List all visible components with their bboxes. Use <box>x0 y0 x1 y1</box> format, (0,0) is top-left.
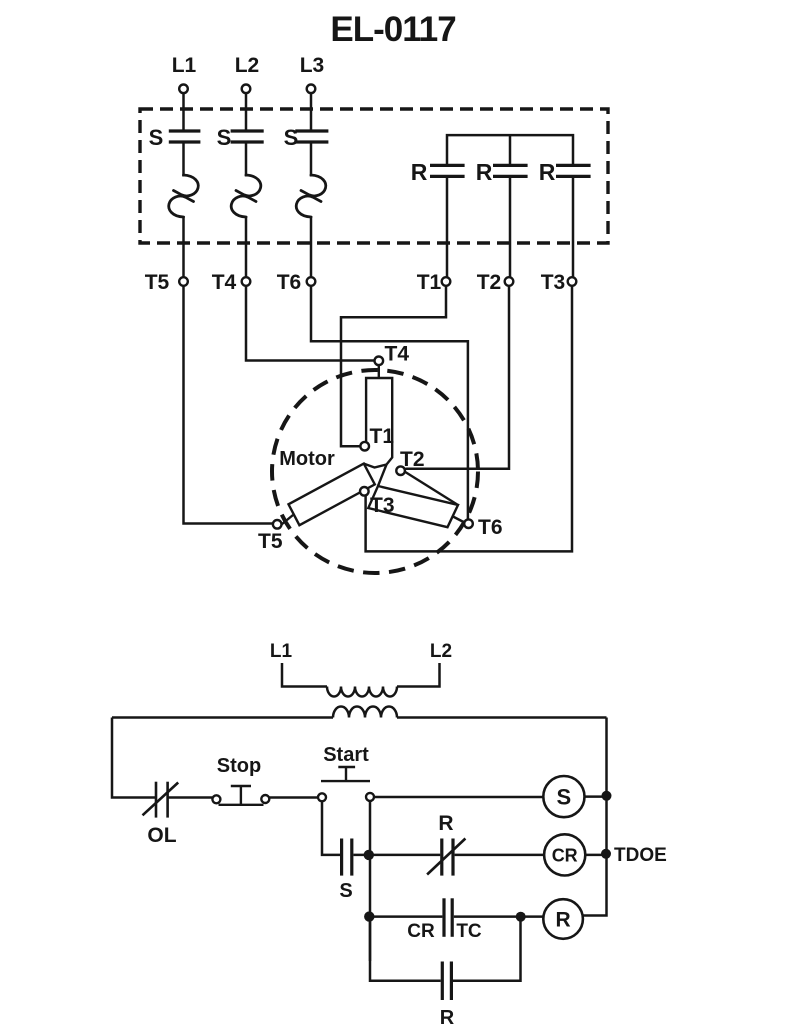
svg-text:T4: T4 <box>385 343 410 366</box>
svg-text:L1: L1 <box>172 54 197 77</box>
svg-text:S: S <box>339 880 352 902</box>
svg-text:TC: TC <box>456 921 482 942</box>
svg-text:T3: T3 <box>541 271 566 294</box>
svg-text:L2: L2 <box>235 54 260 77</box>
svg-text:L1: L1 <box>270 641 293 662</box>
svg-text:R: R <box>476 159 493 185</box>
svg-text:R: R <box>556 909 571 932</box>
svg-text:CR: CR <box>407 921 435 942</box>
svg-text:R: R <box>539 159 556 185</box>
svg-text:T2: T2 <box>400 448 425 471</box>
svg-text:T6: T6 <box>277 271 302 294</box>
svg-text:T3: T3 <box>370 494 395 517</box>
svg-text:T1: T1 <box>417 271 442 294</box>
svg-text:S: S <box>149 125 164 150</box>
svg-text:L2: L2 <box>430 641 452 662</box>
svg-text:TDOE: TDOE <box>614 845 667 866</box>
svg-text:S: S <box>217 125 232 150</box>
svg-text:T1: T1 <box>370 425 395 448</box>
svg-text:Start: Start <box>323 744 369 766</box>
svg-text:T6: T6 <box>478 516 503 539</box>
svg-text:CR: CR <box>552 846 578 866</box>
svg-text:S: S <box>284 125 299 150</box>
svg-text:R: R <box>440 1007 455 1029</box>
svg-text:EL-0117: EL-0117 <box>330 10 455 49</box>
svg-text:T4: T4 <box>212 271 237 294</box>
svg-text:T5: T5 <box>145 271 170 294</box>
svg-text:Motor: Motor <box>279 448 335 470</box>
svg-text:OL: OL <box>147 824 176 847</box>
svg-text:L3: L3 <box>300 54 325 77</box>
svg-text:R: R <box>438 812 453 835</box>
svg-text:Stop: Stop <box>217 755 261 777</box>
svg-text:T5: T5 <box>258 530 283 553</box>
svg-text:S: S <box>557 785 572 810</box>
svg-text:T2: T2 <box>477 271 502 294</box>
svg-text:R: R <box>411 159 428 185</box>
